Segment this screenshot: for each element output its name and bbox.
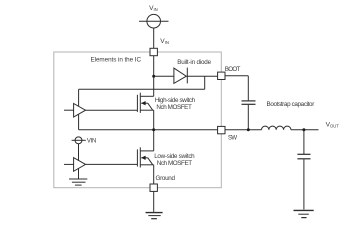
svg-text:Bootstrap capacitor: Bootstrap capacitor: [267, 101, 315, 108]
svg-text:Built-in diode: Built-in diode: [177, 59, 211, 66]
svg-text:BOOT: BOOT: [225, 66, 241, 73]
svg-text:Nch MOSFET: Nch MOSFET: [156, 104, 192, 111]
svg-text:OUT: OUT: [330, 124, 339, 129]
svg-text:Ground: Ground: [156, 175, 176, 182]
svg-text:Nch MOSFET: Nch MOSFET: [157, 160, 193, 167]
svg-text:Low-side switch: Low-side switch: [154, 153, 195, 160]
svg-text:VIN: VIN: [87, 139, 97, 145]
svg-text:IN: IN: [154, 7, 158, 12]
svg-text:IN: IN: [165, 40, 169, 45]
svg-text:Elements in the IC: Elements in the IC: [91, 56, 142, 63]
svg-text:SW: SW: [228, 136, 237, 142]
